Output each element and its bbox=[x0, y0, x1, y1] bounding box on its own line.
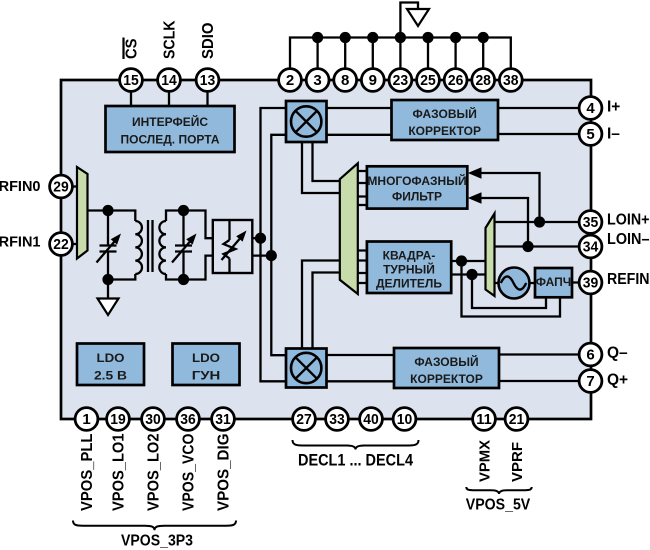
svg-text:31: 31 bbox=[215, 411, 231, 428]
node balun primary top bbox=[102, 205, 113, 216]
pin 23 bbox=[389, 69, 412, 92]
svg-text:21: 21 bbox=[509, 411, 525, 428]
brace VPOS_3P3 bbox=[73, 521, 236, 531]
mux M1 LO select (green) bbox=[340, 163, 358, 294]
svg-text:38: 38 bbox=[503, 72, 519, 89]
svg-text:11: 11 bbox=[476, 411, 492, 428]
svg-text:19: 19 bbox=[110, 411, 126, 428]
svg-text:ФИЛЬТР: ФИЛЬТР bbox=[392, 190, 442, 204]
mixer U3 (bottom) bbox=[286, 349, 327, 388]
transformer T1 core bbox=[148, 220, 153, 272]
pin 5 bbox=[579, 123, 602, 146]
pin 39 bbox=[579, 271, 602, 294]
svg-text:ТУРНЫЙ: ТУРНЫЙ bbox=[383, 262, 435, 277]
pin 33 bbox=[326, 408, 349, 431]
node LOIN+ tap bbox=[534, 216, 545, 227]
svg-text:35: 35 bbox=[583, 214, 599, 231]
svg-text:3: 3 bbox=[313, 72, 321, 89]
svg-text:15: 15 bbox=[123, 72, 139, 89]
block phase corrector 1 bbox=[392, 100, 499, 140]
node junction dots on bus bbox=[312, 32, 489, 43]
svg-text:ПОСЛЕД. ПОРТА: ПОСЛЕД. ПОРТА bbox=[120, 133, 219, 147]
wire divider to mux M2 lower bbox=[451, 273, 485, 275]
wire pins 15,14,13 to serial interface bbox=[131, 91, 208, 106]
svg-text:ФАЗОВЫЙ: ФАЗОВЫЙ bbox=[413, 106, 477, 121]
svg-text:ФАЗОВЫЙ: ФАЗОВЫЙ bbox=[414, 354, 478, 369]
pin 8 bbox=[334, 69, 357, 92]
svg-text:28: 28 bbox=[475, 72, 491, 89]
block phase corrector 2 bbox=[394, 348, 499, 388]
node balun secondary top bbox=[178, 205, 189, 216]
wire mixer2 LO a bbox=[302, 261, 340, 349]
pin 10 bbox=[393, 408, 416, 431]
svg-text:ФАПЧ: ФАПЧ bbox=[536, 275, 572, 289]
svg-text:22: 22 bbox=[53, 236, 69, 253]
wire PLL feedback outer bbox=[462, 261, 561, 317]
svg-text:RFIN0: RFIN0 bbox=[0, 179, 41, 195]
svg-text:SDIO: SDIO bbox=[200, 23, 217, 60]
pin 26 bbox=[444, 69, 467, 92]
mixer U2 (top) bbox=[286, 101, 327, 142]
pin label CS bbox=[124, 38, 141, 60]
pin 15 bbox=[120, 69, 143, 92]
mux M2 (green) bbox=[486, 214, 495, 297]
pin 11 bbox=[473, 408, 496, 431]
pin 31 bbox=[212, 408, 235, 431]
pin 19 bbox=[107, 408, 130, 431]
svg-text:МНОГОФАЗНЫЙ: МНОГОФАЗНЫЙ bbox=[367, 173, 466, 188]
node RF rail B tap bbox=[266, 250, 277, 261]
pin 40 bbox=[360, 408, 383, 431]
svg-text:VPRF: VPRF bbox=[509, 442, 526, 482]
block serial port interface bbox=[106, 106, 235, 152]
svg-text:7: 7 bbox=[586, 373, 594, 390]
block polyphase filter bbox=[367, 166, 467, 208]
block quadrature divider bbox=[367, 242, 451, 294]
svg-text:LOIN–: LOIN– bbox=[607, 231, 650, 248]
wire RF rail B bbox=[271, 135, 286, 355]
wire bus drops to pins 3,8,9,23,25,26,28 bbox=[318, 38, 484, 69]
pin 2 bbox=[279, 69, 302, 92]
svg-text:13: 13 bbox=[200, 72, 216, 89]
svg-text:2: 2 bbox=[286, 72, 294, 89]
svg-text:КОРРЕКТОР: КОРРЕКТОР bbox=[410, 372, 483, 386]
svg-text:VPOS_3P3: VPOS_3P3 bbox=[121, 533, 193, 550]
pin 13 bbox=[196, 69, 219, 92]
svg-text:LOIN+: LOIN+ bbox=[607, 212, 650, 229]
svg-text:VPOS_DIG: VPOS_DIG bbox=[216, 434, 233, 512]
svg-text:25: 25 bbox=[420, 72, 436, 89]
svg-text:14: 14 bbox=[161, 72, 177, 89]
svg-text:8: 8 bbox=[341, 72, 349, 89]
svg-text:26: 26 bbox=[448, 72, 464, 89]
pin 27 bbox=[293, 408, 316, 431]
wire mux M2 to oscillator bbox=[495, 282, 500, 284]
pin 38 bbox=[499, 69, 522, 92]
pin 34 bbox=[579, 235, 602, 258]
pin 35 bbox=[579, 211, 602, 234]
svg-text:I–: I– bbox=[607, 126, 620, 143]
wire oscillator to PLL bbox=[530, 282, 536, 284]
svg-text:VPOS_VCO: VPOS_VCO bbox=[181, 434, 198, 512]
pin 1 bbox=[75, 408, 98, 431]
pin 29 bbox=[50, 175, 73, 198]
wire mixer1 LO a bbox=[302, 142, 340, 193]
wire divider to mux M2 upper bbox=[451, 260, 485, 262]
svg-text:4: 4 bbox=[586, 100, 595, 117]
resistor R1 tunable network box bbox=[213, 220, 253, 273]
wire balun out plus bbox=[252, 237, 260, 239]
wire top ground bus bbox=[290, 38, 511, 69]
wire mux to divider stubs bbox=[358, 251, 367, 284]
svg-text:40: 40 bbox=[363, 411, 379, 428]
pin 25 bbox=[417, 69, 440, 92]
svg-text:VPOS_LO1: VPOS_LO1 bbox=[111, 433, 128, 511]
svg-text:36: 36 bbox=[180, 411, 196, 428]
svg-text:Q–: Q– bbox=[607, 345, 628, 362]
svg-text:5: 5 bbox=[586, 126, 594, 143]
wire mixer1 LO b bbox=[313, 142, 340, 181]
svg-text:VPOS_LO2: VPOS_LO2 bbox=[146, 434, 163, 512]
wire balun out minus bbox=[252, 254, 271, 256]
svg-text:CS: CS bbox=[124, 39, 141, 60]
inductor L2 secondary winding bbox=[159, 221, 166, 274]
svg-text:КОРРЕКТОР: КОРРЕКТОР bbox=[408, 124, 481, 138]
svg-text:39: 39 bbox=[583, 275, 599, 292]
svg-text:29: 29 bbox=[53, 179, 69, 196]
svg-text:2.5 В: 2.5 В bbox=[94, 369, 127, 383]
svg-text:23: 23 bbox=[393, 72, 409, 89]
brace DECL bbox=[293, 440, 419, 450]
wire RF rail A bbox=[261, 108, 287, 381]
svg-text:VPOS_5V: VPOS_5V bbox=[466, 497, 531, 514]
svg-text:LDO: LDO bbox=[192, 351, 220, 365]
brace VPOS_5V bbox=[466, 487, 531, 494]
pin 28 bbox=[472, 69, 495, 92]
wire mixer2 outputs to phase corrector 2 bbox=[327, 355, 395, 381]
varactor C2 bbox=[175, 211, 192, 280]
svg-text:ГУН: ГУН bbox=[192, 369, 221, 383]
svg-text:VPOS_PLL: VPOS_PLL bbox=[79, 434, 96, 512]
wire RFIN1 stub bbox=[72, 243, 77, 245]
pin 4 bbox=[579, 97, 602, 120]
wire LOIN+ to filter arrow bbox=[480, 173, 540, 222]
node LOIN- tap bbox=[522, 241, 533, 252]
svg-text:6: 6 bbox=[586, 347, 594, 364]
wire mux to filter stubs bbox=[358, 171, 367, 205]
wire PLL to REFIN bbox=[572, 281, 579, 283]
wire mixer2 LO b bbox=[313, 273, 340, 349]
wire LOIN- line bbox=[495, 245, 580, 247]
svg-text:LDO: LDO bbox=[97, 351, 125, 365]
ground (top) bbox=[407, 9, 429, 26]
svg-text:I+: I+ bbox=[607, 99, 620, 116]
svg-text:REFIN: REFIN bbox=[607, 271, 650, 288]
wire phase corrector 1 to pins 4,5 bbox=[498, 108, 579, 134]
varactor C1 bbox=[100, 211, 117, 280]
node divider out lower bbox=[466, 269, 477, 280]
svg-text:КВАДРА-: КВАДРА- bbox=[383, 249, 436, 263]
node balun primary bottom bbox=[102, 274, 113, 285]
pin 22 bbox=[50, 233, 73, 256]
svg-text:Q+: Q+ bbox=[607, 372, 628, 389]
wire RFIN0 stub bbox=[72, 185, 77, 187]
svg-text:ИНТЕРФЕЙС: ИНТЕРФЕЙС bbox=[132, 114, 208, 129]
node balun secondary bottom bbox=[178, 274, 189, 285]
svg-text:RFIN1: RFIN1 bbox=[0, 235, 41, 251]
pin 6 bbox=[579, 343, 602, 366]
svg-text:10: 10 bbox=[397, 411, 413, 428]
wire balun primary bottom bbox=[108, 274, 135, 280]
pin 7 bbox=[579, 370, 602, 393]
pin 3 bbox=[306, 69, 329, 92]
svg-text:9: 9 bbox=[369, 72, 377, 89]
wire mixer1 outputs to phase corrector 1 bbox=[327, 108, 392, 135]
pin 21 bbox=[505, 408, 528, 431]
svg-text:33: 33 bbox=[329, 411, 345, 428]
node RF rail A tap bbox=[255, 233, 266, 244]
node divider out upper bbox=[456, 255, 467, 266]
block LDO VCO bbox=[173, 344, 240, 386]
pin 36 bbox=[177, 408, 200, 431]
svg-text:VPMX: VPMX bbox=[477, 440, 494, 482]
svg-text:30: 30 bbox=[145, 411, 161, 428]
wire ground stem bbox=[107, 280, 109, 299]
pin 14 bbox=[158, 69, 181, 92]
wire LOIN- to filter arrow bbox=[480, 198, 528, 247]
wire to top ground bbox=[400, 3, 418, 38]
svg-text:SCLK: SCLK bbox=[162, 20, 179, 59]
svg-text:1: 1 bbox=[82, 411, 90, 428]
pin 30 bbox=[142, 408, 165, 431]
wire balun secondary bottom bbox=[166, 256, 213, 280]
block PLL bbox=[535, 268, 572, 297]
ground (balun) bbox=[98, 299, 119, 316]
svg-text:27: 27 bbox=[296, 411, 312, 428]
pin 9 bbox=[361, 69, 384, 92]
wire balun primary top bbox=[88, 211, 136, 222]
wire balun secondary top bbox=[166, 211, 213, 239]
svg-text:34: 34 bbox=[583, 239, 599, 256]
block LDO 2.5V bbox=[77, 344, 144, 386]
main IC body bbox=[61, 80, 591, 419]
inductor L1 primary winding bbox=[135, 221, 142, 274]
amplifier A1 input (green) bbox=[77, 167, 88, 259]
svg-text:DECL1 ... DECL4: DECL1 ... DECL4 bbox=[298, 452, 414, 470]
svg-text:ДЕЛИТЕЛЬ: ДЕЛИТЕЛЬ bbox=[376, 277, 442, 291]
wire LOIN+ line bbox=[495, 221, 580, 223]
wire phase corrector 2 to pins 6,7 bbox=[499, 355, 579, 382]
oscillator G1 bbox=[499, 268, 530, 299]
wire PLL feedback inner bbox=[472, 275, 546, 309]
